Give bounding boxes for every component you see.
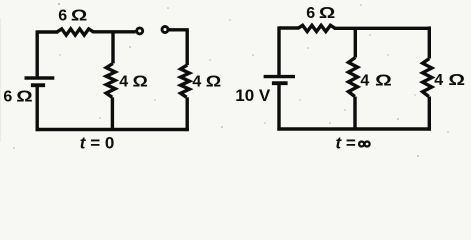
switch S1 terminal circle right bbox=[162, 27, 168, 33]
wire: right circuit left wire lower bbox=[277, 85, 280, 131]
resistor R4 6-ohm (right circuit, top) bbox=[298, 25, 335, 31]
battery B2 short plate bbox=[272, 81, 288, 85]
wire: right circuit right wire lower bbox=[428, 97, 431, 131]
svg-text:Ω: Ω bbox=[71, 6, 87, 24]
svg-text:10 V: 10 V bbox=[235, 86, 271, 105]
switch S1 terminal circle left bbox=[137, 28, 143, 34]
svg-text:Ω: Ω bbox=[319, 3, 335, 21]
wire: right circuit left wire upper bbox=[277, 26, 280, 76]
scan edge smear left bbox=[0, 18, 1, 142]
svg-text:Ω: Ω bbox=[16, 87, 32, 105]
resistor R2 4-ohm (left circuit, middle branch) bbox=[106, 64, 115, 98]
svg-text:Ω: Ω bbox=[375, 71, 392, 89]
wire: from right switch terminal to top-right corner of left circuit bbox=[169, 28, 189, 31]
battery B1 short plate bbox=[31, 83, 45, 87]
svg-text:t =: t = bbox=[336, 133, 356, 152]
svg-text:6: 6 bbox=[58, 8, 67, 25]
wire: left circuit right branch lower bbox=[185, 97, 188, 131]
svg-text:4: 4 bbox=[119, 73, 128, 90]
wire: right circuit right wire upper bbox=[428, 26, 431, 58]
wire: left circuit right branch upper bbox=[185, 30, 188, 65]
battery B2 long plate bbox=[264, 75, 295, 78]
wire: right circuit top wire left segment bbox=[279, 26, 299, 29]
wire: left circuit top wire bbox=[37, 30, 58, 33]
resistor R6 4-ohm (right circuit, right branch) bbox=[423, 59, 432, 97]
scan speckles bbox=[13, 3, 449, 157]
wire: left circuit middle branch lower bbox=[111, 97, 114, 129]
svg-text:Ω: Ω bbox=[448, 71, 465, 89]
svg-text:4: 4 bbox=[434, 72, 443, 89]
svg-text:Ω: Ω bbox=[133, 72, 148, 90]
wire: left circuit bottom wire bbox=[36, 128, 189, 131]
resistor R1 6-ohm (left circuit, top) bbox=[57, 29, 93, 35]
wire: left circuit middle branch upper bbox=[111, 32, 114, 64]
svg-text:Ω: Ω bbox=[206, 72, 222, 90]
wire: left circuit left wire upper bbox=[36, 30, 39, 76]
svg-text:6: 6 bbox=[306, 5, 315, 22]
svg-text:t = 0: t = 0 bbox=[80, 133, 115, 152]
svg-text:4: 4 bbox=[192, 73, 201, 90]
wire: right circuit top wire right segment bbox=[334, 27, 431, 30]
svg-text:4: 4 bbox=[360, 72, 369, 89]
wire: right circuit middle branch lower bbox=[353, 97, 356, 130]
wire: left circuit left wire lower bbox=[36, 87, 39, 131]
wire: right circuit bottom wire bbox=[277, 127, 431, 130]
svg-text:6: 6 bbox=[3, 89, 12, 106]
battery B1 long plate bbox=[25, 76, 55, 79]
resistor R5 4-ohm (right circuit, middle branch) bbox=[348, 58, 357, 97]
wire: left circuit top wire (right of resistor) bbox=[92, 30, 135, 33]
infinity symbol of t = infinity label bbox=[359, 142, 370, 147]
resistor R3 4-ohm (left circuit, right branch) bbox=[181, 65, 190, 97]
wire: right circuit middle branch upper bbox=[354, 28, 357, 58]
